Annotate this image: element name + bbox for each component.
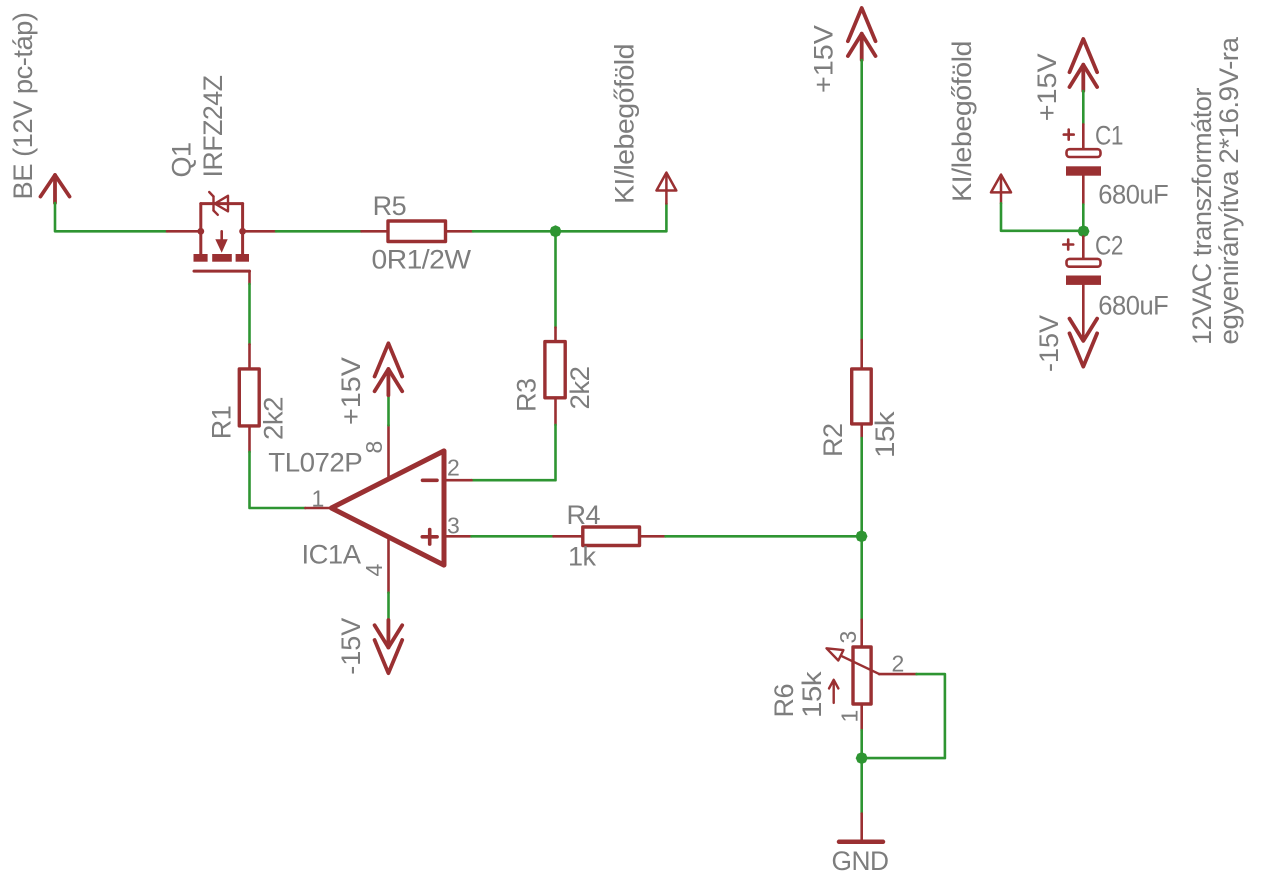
supply arrow BE net [41,175,70,203]
supply arrow KI/lebegőföld left [657,173,677,204]
junction node right [1078,225,1090,237]
svg-text:680uF: 680uF [1098,291,1168,321]
svg-text:3: 3 [447,513,460,539]
resistor R3 body [545,342,565,398]
wire R6 pin1 to bottom junction [860,730,863,758]
potentiometer R6 pin 1 [860,704,863,730]
wire Q1 gate to R1 [248,284,251,344]
supply +15V right column [1070,39,1098,91]
svg-text:1: 1 [312,486,325,512]
Q1 bulk arrow [220,231,223,239]
resistor R4 left pin [554,535,583,538]
potentiometer R6 body [853,647,871,704]
svg-text:2: 2 [447,455,460,481]
resistor R5 left pin [362,230,389,233]
svg-text:KI/lebegőföld: KI/lebegőföld [947,41,977,202]
wire junction to R6 [860,536,863,620]
svg-text:R4: R4 [567,500,601,530]
wire +15V to C1 [1082,91,1085,124]
wire R5 to junction and KI arrow [473,204,666,232]
resistor R3 top pin [554,328,557,342]
potentiometer R6 wiper [827,648,880,674]
wire R3 to op-amp pin 2 [472,425,556,480]
op-amp non-inverting pin 3 [447,535,472,538]
resistor R1 body [239,369,259,426]
capacitor C1 negative plate [1066,166,1101,175]
wire junction to GND [860,758,863,813]
op-amp V- pin 4 [387,537,390,593]
capacitor C2 top pin [1082,237,1085,258]
resistor R4 body [583,527,640,546]
Q1 drain pin [243,230,276,233]
svg-text:2k2: 2k2 [259,397,289,440]
wire pin 8 to +15V [387,395,390,425]
svg-text:egyenirányítva 2*16.9V-ra: egyenirányítva 2*16.9V-ra [1214,36,1244,345]
Q1 junction dot right [239,228,246,235]
svg-text:1k: 1k [568,542,597,572]
wire R4 to center junction [666,535,862,538]
svg-text:2k2: 2k2 [565,367,595,410]
resistor R2 body [852,369,872,424]
resistor R2 top pin [860,340,863,369]
potentiometer R6 pin 2 [879,673,916,676]
svg-text:12VAC transzformátor: 12VAC transzformátor [1187,88,1217,345]
transistor Q1 body [201,204,243,254]
svg-text:0R1/2W: 0R1/2W [372,245,472,275]
supply +15V top for R2 [848,8,876,60]
Q1 junction dot left [197,228,204,235]
svg-text:R5: R5 [373,191,407,221]
svg-text:BE (12V pc-táp): BE (12V pc-táp) [8,13,38,200]
resistor R4 right pin [640,535,666,538]
resistor R2 bottom pin [860,424,863,438]
capacitor C1 plus sign [1064,130,1074,140]
resistor R3 bottom pin [554,398,557,425]
svg-text:15k: 15k [797,671,827,718]
svg-text:2: 2 [892,651,905,677]
wire pin 4 to -15V [387,593,390,620]
Q1 gate pin [248,271,251,284]
wire Q1 to R5 [276,230,362,233]
svg-text:Q1: Q1 [167,142,197,177]
op-amp inverting pin 2 [447,479,472,482]
capacitor C1 positive plate [1067,149,1101,157]
svg-text:+15V: +15V [1032,53,1062,121]
svg-text:8: 8 [361,441,387,454]
minus symbol [423,478,438,482]
junction node KI net [550,225,562,237]
supply -15V right column [1070,319,1098,367]
svg-text:15k: 15k [870,411,900,458]
supply +15V above op-amp [375,343,403,395]
potentiometer R6 pin 3 [860,620,863,647]
wire R2 to center junction [860,438,863,536]
potentiometer R6 adjust arrow [829,680,838,703]
resistor R1 bottom pin [248,426,251,452]
junction node center [856,530,868,542]
svg-text:R6: R6 [769,684,799,718]
wire R6 pin2 loop to bottom junction [867,674,945,758]
op-amp IC1A triangle [331,451,444,565]
supply arrow KI/lebegőföld right [991,175,1011,204]
svg-text:-15V: -15V [1034,315,1064,372]
wire +15V to R2 [860,60,863,340]
svg-text:GND: GND [832,846,889,876]
svg-text:1: 1 [837,710,863,723]
wire C1 to junction [1082,205,1085,237]
svg-text:4: 4 [361,564,387,577]
op-amp output pin 1 [305,507,331,510]
Q1 gate plate [194,270,250,273]
wire junction to R3 [554,231,557,327]
Q1 body diode [209,192,228,215]
capacitor C2 bottom pin [1082,285,1085,341]
transistor Q1 left pin (source) [167,230,201,233]
svg-text:R2: R2 [818,423,848,457]
wire KI arrow right to junction [1001,203,1083,231]
wire op-amp pin 3 to R4 [472,535,554,538]
plus symbol [422,530,437,545]
Q1 channel segments [194,254,208,262]
wire BE arrow to Q1 [55,203,167,231]
junction node bottom [856,752,868,764]
ground GND pin [860,814,863,841]
svg-text:+15V: +15V [336,357,366,425]
op-amp V+ pin 8 [387,425,390,479]
svg-text:KI/lebegőföld: KI/lebegőföld [610,44,640,204]
svg-text:IRFZ24Z: IRFZ24Z [198,75,228,177]
resistor R5 right pin [446,230,474,233]
capacitor C1 top pin [1082,124,1085,148]
svg-text:+15V: +15V [809,25,839,93]
supply -15V below op-amp [375,620,403,673]
capacitor C2 negative plate [1066,276,1101,285]
svg-text:680uF: 680uF [1098,180,1168,210]
svg-text:R3: R3 [512,378,542,412]
capacitor C2 positive plate [1067,259,1101,267]
wire R1 to op-amp output [250,452,306,508]
capacitor C2 plus sign [1063,240,1073,250]
ground GND symbol [839,840,883,845]
svg-text:-15V: -15V [336,618,366,675]
resistor R1 top pin [248,344,251,369]
capacitor C1 bottom pin [1082,176,1085,205]
svg-text:3: 3 [835,631,861,644]
svg-text:C2: C2 [1095,231,1123,261]
svg-text:R1: R1 [207,406,237,440]
svg-text:IC1A: IC1A [302,540,361,570]
resistor R5 body [388,221,446,242]
svg-text:TL072P: TL072P [268,448,362,478]
svg-text:C1: C1 [1095,121,1123,151]
